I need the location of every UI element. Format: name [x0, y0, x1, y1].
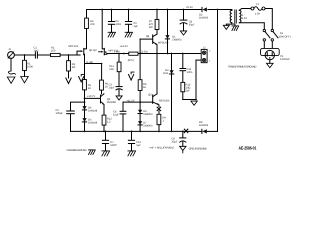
- diode D6: [138, 110, 153, 121]
- svg-text:1N4003: 1N4003: [199, 124, 209, 127]
- ground slash under C6: [108, 32, 115, 37]
- node D7 at rail: [139, 131, 141, 133]
- svg-text:TRANSFORMER GROUND: TRANSFORMER GROUND: [228, 65, 257, 68]
- diode D2 on top rail: [199, 7, 209, 20]
- resistor R1: [23, 55, 34, 77]
- node D5 at rail: [84, 131, 86, 133]
- ground chassis under R1: [21, 77, 29, 83]
- node R3 tap: [68, 54, 70, 56]
- svg-text:MPSU56: MPSU56: [159, 100, 170, 103]
- node R12 at rail: [103, 131, 105, 133]
- wire primary bottom to switch left pole: [239, 23, 264, 30]
- capacitor C3: [109, 84, 123, 96]
- transistor Q4 MPSU05: [140, 34, 169, 53]
- transistor Q5 MPSU56: [148, 54, 170, 107]
- test point X on Q5 emitter: [157, 107, 161, 114]
- ground slash transformer secondary: [232, 26, 239, 31]
- capacitor C10 below rail: [128, 131, 141, 151]
- wire output line left: [107, 53, 129, 55]
- svg-text:10μF: 10μF: [109, 87, 115, 90]
- node D1 at output line: [167, 53, 169, 55]
- svg-text:21.5V: 21.5V: [186, 6, 193, 9]
- svg-text:10μF: 10μF: [113, 113, 119, 116]
- fuse F1: [251, 3, 265, 15]
- node output junction: [156, 53, 158, 55]
- svg-text:(1.04): (1.04): [141, 51, 148, 54]
- svg-text:1N4003: 1N4003: [143, 113, 153, 116]
- svg-text:35μF: 35μF: [172, 141, 178, 144]
- svg-text:2N5088: 2N5088: [107, 101, 117, 104]
- test point X on bottom rail: [184, 129, 188, 133]
- ground triangle transformer secondary: [223, 25, 229, 29]
- resistor R9: [157, 114, 166, 131]
- wire primary top to fuse: [239, 9, 251, 11]
- wire Q1 source link: [85, 63, 102, 65]
- svg-text:47K: 47K: [90, 23, 95, 26]
- svg-text:CHASSIS GROUND: CHASSIS GROUND: [67, 149, 87, 152]
- svg-text:5μF: 5μF: [136, 144, 141, 147]
- svg-text:1N4148: 1N4148: [88, 122, 98, 125]
- capacitor C7 below rail: [102, 131, 117, 151]
- capacitor C9 below rail: [172, 131, 186, 147]
- ground triangle circuit under C9: [180, 146, 186, 153]
- svg-text:35μF: 35μF: [189, 23, 195, 26]
- resistor R3: [67, 55, 76, 78]
- svg-text:1W: 1W: [186, 89, 190, 92]
- node C5 link: [84, 101, 86, 103]
- svg-text:1K: 1K: [143, 86, 146, 89]
- svg-text:(975): (975): [128, 59, 134, 62]
- svg-text:100K: 100K: [27, 66, 33, 69]
- resistor R4: [85, 10, 95, 29]
- wire C1 to R2: [37, 54, 50, 56]
- svg-text:(ON-OFF): (ON-OFF): [279, 36, 291, 39]
- svg-text:1N4003: 1N4003: [143, 125, 153, 128]
- capacitor C4: [113, 102, 126, 131]
- wire Q5 base line: [123, 101, 153, 103]
- svg-text:1.2: 1.2: [107, 121, 111, 124]
- wire output line right: [138, 53, 201, 55]
- svg-text:100n: 100n: [187, 71, 193, 74]
- capacitor C11: [180, 53, 193, 83]
- diode D1: [165, 9, 182, 54]
- ground triangle zobel: [191, 101, 197, 105]
- resistor R13: [181, 82, 191, 99]
- ground chassis under J1: [7, 77, 15, 83]
- resistor R2: [51, 47, 61, 57]
- svg-text:1μF: 1μF: [133, 25, 138, 28]
- wire secondary bottom: [226, 23, 232, 26]
- svg-text:1W: 1W: [149, 26, 153, 29]
- chassis ground legend symbol: [89, 150, 96, 155]
- ground arrow under R3: [66, 78, 71, 84]
- wire fuse to switch right pole: [265, 9, 272, 30]
- ground triangle under plug: [267, 60, 274, 68]
- svg-text:1000*: 1000*: [110, 144, 117, 147]
- wire zobel ground link: [183, 99, 196, 101]
- node C4 at rail: [122, 131, 124, 133]
- ground slash under C10: [128, 151, 136, 156]
- wire top supply rail: [87, 9, 232, 11]
- ground slash under C2: [125, 32, 132, 37]
- node Q3 base: [84, 98, 86, 100]
- jack J1 input: [8, 48, 25, 58]
- transistor Q1 MPF102: [69, 29, 87, 64]
- diode D5: [82, 118, 97, 131]
- transistor Q2 MPF102: [99, 10, 119, 55]
- svg-text:1N4..: 1N4..: [163, 72, 169, 75]
- svg-text:+14.2V: +14.2V: [120, 45, 129, 48]
- wire right edge vertical: [217, 10, 219, 132]
- diode D7: [138, 121, 153, 131]
- ground triangle under C8: [180, 31, 186, 35]
- plug P1: [261, 41, 290, 61]
- capacitor C8: [180, 9, 195, 31]
- transistor Q3: [101, 94, 117, 115]
- ground arrow mid: [129, 72, 135, 80]
- wire mid vertical to rail: [171, 53, 173, 133]
- svg-text:100μF: 100μF: [56, 112, 64, 115]
- diode D4: [82, 106, 97, 118]
- resistor R10 inline: [128, 52, 138, 62]
- svg-text:12.6V: 12.6V: [240, 17, 247, 20]
- resistor R12: [102, 115, 112, 131]
- capacitor C6: [108, 9, 121, 33]
- svg-text:120VAC: 120VAC: [280, 58, 290, 61]
- svg-text:S1: S1: [280, 32, 284, 35]
- node Q5 base line: [139, 101, 141, 103]
- svg-text:AE-2586-01: AE-2586-01: [239, 145, 257, 150]
- svg-text:MPF102: MPF102: [69, 45, 79, 48]
- svg-text:1N4003: 1N4003: [199, 17, 209, 20]
- svg-text:100: 100: [51, 50, 56, 53]
- svg-text:*mF = MILLIFARADS: *mF = MILLIFARADS: [149, 147, 174, 150]
- wire bottom rail left segment: [71, 130, 202, 132]
- node R11 tap: [123, 53, 125, 55]
- svg-text:+10.7V: +10.7V: [87, 95, 96, 98]
- switch S1: [263, 29, 291, 41]
- diode D3: [163, 69, 174, 75]
- wire R1 node to C1: [25, 54, 36, 56]
- svg-text:100n: 100n: [115, 23, 121, 26]
- resistor R7: [149, 9, 159, 34]
- ground slash under C7: [102, 151, 110, 156]
- resistor R5: [83, 64, 92, 107]
- svg-text:Q5: Q5: [148, 93, 152, 96]
- jack J2 speaker: [196, 47, 211, 100]
- svg-text:CIRCUIT GROUND: CIRCUIT GROUND: [189, 148, 207, 151]
- svg-text:1N4148: 1N4148: [88, 110, 98, 113]
- wire C5 link: [71, 102, 85, 110]
- node J1 to R1: [24, 54, 26, 56]
- svg-text:10K: 10K: [109, 68, 114, 71]
- svg-text:Q1 Q2: Q1 Q2: [89, 49, 97, 52]
- wire Q3 base: [85, 97, 101, 99]
- resistor R8: [138, 54, 147, 110]
- capacitor C1: [34, 47, 40, 59]
- resistor R6: [100, 63, 109, 94]
- diode D8 on bottom rail: [199, 121, 209, 133]
- svg-text:1M: 1M: [72, 66, 76, 69]
- chassis ground squiggle under J1: [8, 71, 15, 74]
- node R9 at rail: [158, 131, 160, 133]
- svg-text:.047: .047: [34, 50, 40, 53]
- svg-text:Q4: Q4: [146, 35, 150, 38]
- svg-text:1N4003: 1N4003: [172, 39, 182, 42]
- wire J1 sleeve down: [10, 58, 12, 71]
- wire R2 to Q1 gate: [60, 54, 80, 56]
- ground triangle under C3: [116, 96, 122, 100]
- node top rail right corner: [217, 9, 219, 11]
- svg-text:1.5A: 1.5A: [255, 13, 261, 16]
- transformer T1: [230, 10, 247, 24]
- wire bottom rail right segment: [207, 130, 217, 132]
- node R8 tap: [139, 53, 141, 55]
- ground arrow near R5 top: [79, 75, 85, 82]
- capacitor C2: [125, 9, 138, 33]
- capacitor C5: [56, 109, 75, 132]
- resistor R11: [109, 54, 121, 87]
- node Q2 drain at rail: [101, 9, 103, 11]
- svg-text:1K: 1K: [88, 87, 91, 90]
